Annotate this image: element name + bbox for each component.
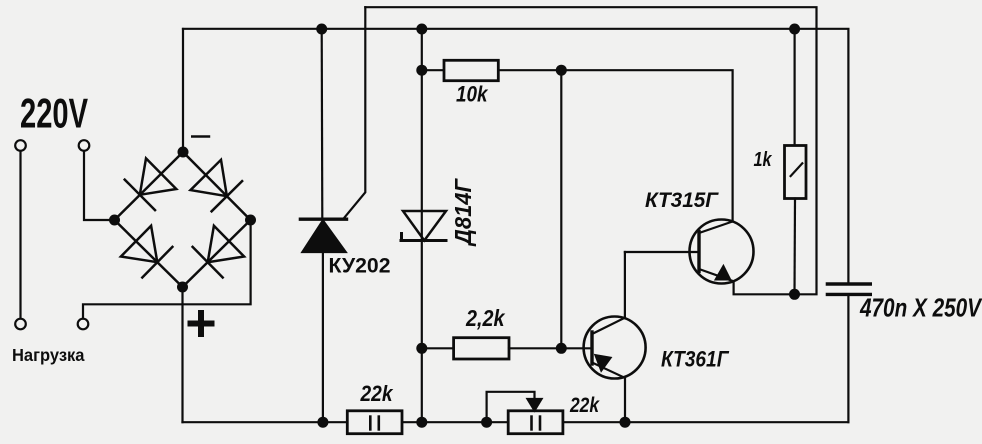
base bar (697, 232, 700, 272)
transistor Q1 KT315G (NPN) (625, 220, 795, 295)
wire anode down (322, 252, 324, 422)
zener diode VD5 D814G (401, 211, 446, 241)
svg-text:22k: 22k (569, 394, 600, 417)
capacitor C1 470n (827, 284, 870, 294)
bridge rectifier VD1-VD4 (115, 152, 251, 287)
node bridge bottom (plus) (177, 282, 188, 293)
node x422 y422 (416, 417, 427, 428)
label minus (192, 135, 209, 138)
thyristor cathode bar (300, 217, 346, 220)
wire x561 vertical (560, 70, 562, 348)
emitter line (592, 363, 625, 423)
terminal top-left (15, 140, 26, 151)
svg-text:Нагрузка: Нагрузка (12, 345, 85, 365)
emitter arrow (596, 355, 611, 370)
circle (690, 220, 754, 284)
thyristor triangle (302, 221, 345, 253)
node bridge top (minus) (178, 147, 189, 158)
wire top-right terminal to bridge left node (84, 151, 115, 220)
wire left terminal pair (19, 151, 21, 319)
base wire (625, 251, 699, 253)
wire bridge top node to negative rail (182, 29, 184, 152)
wire bottom-right terminal to bridge right node (83, 220, 251, 319)
node bottom rail x486 (481, 417, 492, 428)
diode D3 bottom-left (121, 226, 157, 262)
thyristor VS1 KU202 (300, 7, 365, 422)
transistor Q2 KT361G (PNP) (561, 252, 645, 422)
svg-text:10k: 10k (456, 82, 489, 107)
wire gate (345, 7, 366, 217)
node bottom rail x625 (620, 417, 631, 428)
wire gate rail (y=6) (365, 7, 816, 294)
svg-text:1k: 1k (754, 148, 773, 171)
node rail y29 x422 (416, 24, 427, 35)
svg-text:КУ202: КУ202 (329, 254, 391, 278)
terminal bottom-right (78, 319, 89, 330)
resistor R4 22k (347, 411, 402, 434)
diode D4 bottom-right (208, 226, 244, 262)
wire cathode from rail (321, 29, 324, 219)
wire negative rail (y=29) (183, 29, 848, 283)
svg-text:КТ361Г: КТ361Г (661, 347, 730, 372)
wire bridge edge bottom-left (115, 220, 183, 287)
emitter line (699, 269, 795, 294)
wire bottom rail (183, 421, 849, 423)
wire bridge edge top-right (183, 152, 251, 220)
diode D2 top-right (191, 160, 227, 196)
wire capacitor bottom to rail (847, 294, 849, 422)
svg-text:470n X 250V: 470n X 250V (859, 293, 982, 323)
collector line (699, 222, 733, 234)
node x422 y348 (416, 343, 427, 354)
node rail y29 x795 (789, 24, 800, 35)
wire bridge bottom node down to bottom rail (181, 287, 183, 422)
node bottom rail x323 (317, 417, 328, 428)
wire bridge edge top-left (115, 152, 184, 220)
resistor R2 2,2k (422, 338, 562, 359)
wattage slash (791, 163, 803, 176)
svg-text:22k: 22k (360, 381, 394, 406)
node x561 y348 (556, 343, 567, 354)
terminal bottom-left (15, 319, 26, 330)
node rail y29 x322 (316, 24, 327, 35)
node x794 y294 (789, 289, 800, 300)
circle (584, 317, 646, 379)
svg-text:2,2k: 2,2k (465, 305, 506, 331)
collector line (592, 252, 625, 334)
potentiometer R5 22k (487, 392, 563, 434)
node bridge left (109, 215, 120, 226)
wiper wire (487, 392, 535, 422)
base bar (590, 332, 593, 364)
node x561 y70 (556, 65, 567, 76)
svg-text:КТ315Г: КТ315Г (645, 189, 719, 212)
svg-text:Д814Г: Д814Г (450, 178, 476, 247)
label 220V (20, 89, 88, 136)
wiper arrow (528, 399, 542, 411)
base wire (561, 347, 592, 349)
resistor R3 1k (vertical) (785, 29, 807, 294)
node x422 y70 (416, 65, 427, 76)
wire 10k junction to KT315 collector corner (561, 70, 732, 221)
label plus (191, 313, 212, 334)
node bridge right (245, 215, 256, 226)
svg-text:220V: 220V (20, 89, 88, 136)
emitter arrow (716, 266, 730, 279)
terminal top-right (79, 140, 90, 151)
resistor R1 10k (422, 60, 562, 80)
wire zener branch vertical x=422 (421, 29, 423, 422)
wire bridge edge bottom-right (183, 220, 251, 287)
diode D1 top-left (140, 158, 177, 194)
